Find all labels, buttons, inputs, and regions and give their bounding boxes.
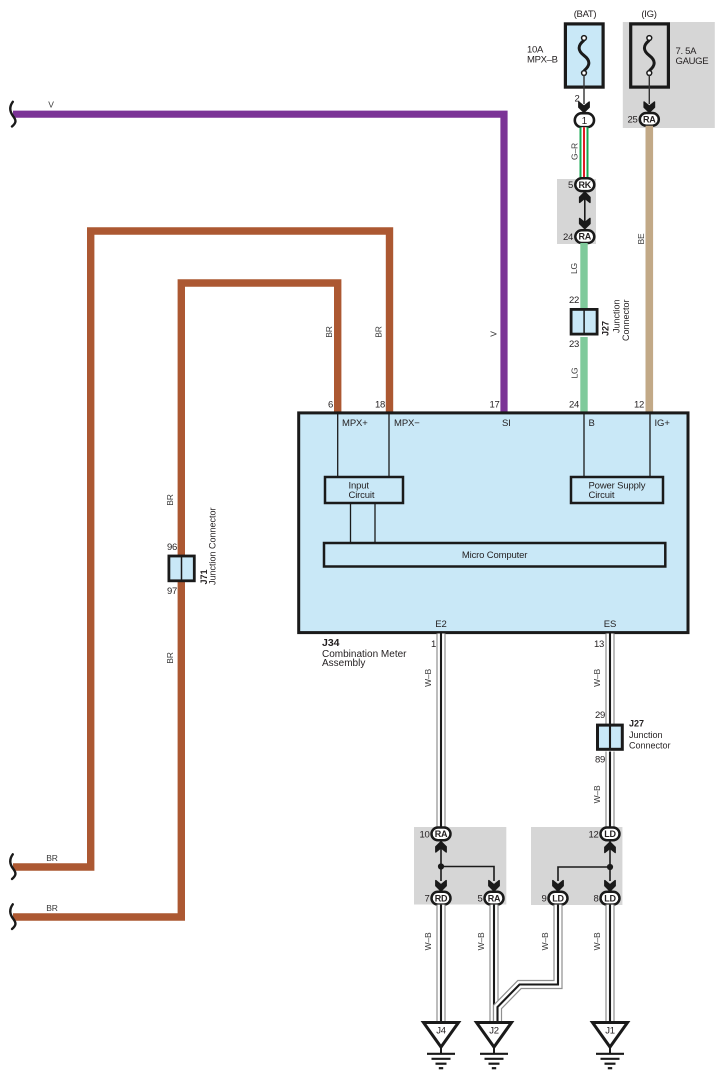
input circuit box xyxy=(325,477,403,503)
svg-text:Micro Computer: Micro Computer xyxy=(462,550,527,561)
svg-text:(BAT): (BAT) xyxy=(574,9,597,20)
svg-text:12: 12 xyxy=(634,400,644,411)
svg-text:LD: LD xyxy=(604,829,616,839)
svg-text:GAUGE: GAUGE xyxy=(676,56,709,67)
wire LG upper xyxy=(580,243,587,308)
svg-text:BR: BR xyxy=(46,903,57,913)
wire G-R xyxy=(580,127,589,179)
node BR outer continuation squiggle xyxy=(10,854,15,879)
gray relay panel left xyxy=(414,827,506,905)
svg-text:BR: BR xyxy=(324,326,334,337)
wire BR inner xyxy=(13,283,338,917)
gray panel RK/RA xyxy=(557,179,596,244)
svg-text:LG: LG xyxy=(569,263,579,274)
svg-text:SI: SI xyxy=(502,418,511,429)
wire BR outer xyxy=(13,231,390,867)
svg-text:RK: RK xyxy=(578,180,591,190)
node 5b RA oval xyxy=(485,892,504,905)
svg-text:25: 25 xyxy=(628,115,638,126)
wire V purple xyxy=(13,114,504,413)
wire fuse IG to 25 RA xyxy=(648,75,650,104)
node 9 LD oval xyxy=(549,892,568,905)
svg-text:8: 8 xyxy=(594,894,599,905)
wire W-B E2 xyxy=(436,634,445,829)
svg-text:J2: J2 xyxy=(489,1026,498,1037)
svg-text:E2: E2 xyxy=(435,619,446,630)
power supply circuit box xyxy=(571,477,663,503)
ground J1 xyxy=(593,1023,628,1069)
wire W-B 8LD to J1 xyxy=(605,905,614,1022)
node V continuation squiggle xyxy=(10,102,15,127)
svg-text:LD: LD xyxy=(552,893,564,903)
fuse MPX-B (BAT) xyxy=(565,24,603,87)
svg-text:W–B: W–B xyxy=(476,932,486,950)
wire input to micro 1 xyxy=(350,503,352,543)
svg-text:Connector: Connector xyxy=(629,741,671,751)
ground J2 xyxy=(477,1023,512,1069)
svg-text:7: 7 xyxy=(425,894,430,905)
wire pin6 internal xyxy=(337,414,339,477)
svg-text:(IG): (IG) xyxy=(641,9,656,20)
arrow into 5 RA xyxy=(489,881,499,891)
svg-text:BE: BE xyxy=(636,233,646,244)
svg-text:BR: BR xyxy=(165,494,175,505)
svg-text:IG+: IG+ xyxy=(655,418,671,429)
svg-text:RA: RA xyxy=(435,829,448,839)
svg-text:18: 18 xyxy=(375,400,385,411)
svg-text:Junction: Junction xyxy=(612,299,622,333)
svg-text:BR: BR xyxy=(46,853,57,863)
double arrow RK to RA xyxy=(580,192,590,229)
svg-text:G–R: G–R xyxy=(570,143,580,160)
arrow into node 1 xyxy=(579,102,589,112)
svg-text:BR: BR xyxy=(165,652,175,663)
node 8 LD oval xyxy=(601,892,620,905)
wire W-B 9LD bend to J2 xyxy=(498,905,559,1022)
svg-text:J27: J27 xyxy=(629,719,644,729)
arrow into 25 RA xyxy=(644,102,654,112)
svg-text:Junction: Junction xyxy=(629,730,663,740)
svg-text:Assembly: Assembly xyxy=(322,658,365,669)
svg-text:97: 97 xyxy=(167,586,177,597)
wire junction branch right xyxy=(441,867,494,882)
svg-text:22: 22 xyxy=(569,295,579,306)
svg-text:1: 1 xyxy=(582,116,588,127)
svg-text:LG: LG xyxy=(570,368,580,379)
ground J4 xyxy=(424,1023,459,1069)
svg-text:W–B: W–B xyxy=(592,669,602,687)
svg-text:24: 24 xyxy=(563,232,573,243)
node 5 RK oval xyxy=(575,178,594,191)
wire W-B 7RD to J4 xyxy=(436,905,445,1022)
node 12 LD oval xyxy=(601,828,620,841)
wire BE xyxy=(645,126,653,413)
node 7 RD oval xyxy=(432,892,451,905)
svg-text:Circuit: Circuit xyxy=(589,490,615,501)
svg-text:LD: LD xyxy=(604,893,616,903)
fuse GAUGE (IG) xyxy=(631,24,669,87)
junction connector J27 top xyxy=(571,309,597,334)
svg-text:MPX+: MPX+ xyxy=(342,418,368,429)
svg-text:RA: RA xyxy=(488,893,501,903)
arrow into 8 LD xyxy=(605,881,615,891)
svg-text:J27: J27 xyxy=(601,321,611,336)
svg-text:W–B: W–B xyxy=(423,932,433,950)
svg-text:96: 96 xyxy=(167,542,177,553)
svg-text:RA: RA xyxy=(578,232,591,242)
svg-text:ES: ES xyxy=(604,619,616,630)
svg-text:BR: BR xyxy=(374,326,384,337)
svg-text:J34: J34 xyxy=(322,637,340,649)
arrow into 7 RD xyxy=(436,881,446,891)
svg-text:23: 23 xyxy=(569,339,579,350)
junction dot right xyxy=(607,864,613,870)
svg-text:24: 24 xyxy=(569,400,579,411)
svg-text:Circuit: Circuit xyxy=(349,490,375,501)
svg-text:Junction Connector: Junction Connector xyxy=(208,507,218,585)
combination meter assembly J34 box xyxy=(299,413,688,633)
svg-text:RD: RD xyxy=(435,893,448,903)
junction connector J27 bottom xyxy=(598,725,623,749)
svg-text:J1: J1 xyxy=(605,1026,614,1037)
wire pin IG+ internal xyxy=(649,414,651,477)
svg-text:MPX−: MPX− xyxy=(394,418,420,429)
svg-text:29: 29 xyxy=(595,710,605,721)
svg-text:9: 9 xyxy=(542,894,547,905)
arrow up into 12 LD xyxy=(605,842,615,852)
wire junction down xyxy=(440,867,442,882)
wire W-B ES lower xyxy=(605,752,614,829)
arrow into 9 LD xyxy=(553,881,563,891)
gray panel IG xyxy=(623,22,715,128)
wire junction branch left xyxy=(558,867,610,881)
arrow up into 10 RA xyxy=(436,842,446,852)
wire pin B internal xyxy=(583,414,585,477)
junction dot left xyxy=(438,863,444,869)
svg-text:1: 1 xyxy=(431,639,436,650)
wire pin18 internal xyxy=(388,414,390,477)
wire 10RA to junction xyxy=(440,841,442,867)
svg-text:5: 5 xyxy=(478,894,483,905)
node 1 oval xyxy=(575,113,594,127)
svg-text:W–B: W–B xyxy=(592,932,602,950)
wire junction down right xyxy=(609,867,611,881)
wire LG lower xyxy=(580,337,587,413)
wire fuse BAT to node 1 xyxy=(583,75,585,104)
micro computer box xyxy=(324,543,665,567)
svg-text:W–B: W–B xyxy=(423,669,433,687)
wire 12LD to junction xyxy=(609,841,611,867)
svg-text:V: V xyxy=(48,100,54,110)
svg-text:RA: RA xyxy=(643,115,656,125)
gray relay panel right xyxy=(531,827,622,905)
node 25 RA oval xyxy=(640,113,659,126)
svg-text:J4: J4 xyxy=(436,1026,445,1037)
wire W-B ES upper xyxy=(605,634,614,725)
svg-text:5: 5 xyxy=(568,180,573,191)
svg-text:12: 12 xyxy=(589,829,599,840)
node BR inner continuation squiggle xyxy=(10,904,15,929)
svg-text:W–B: W–B xyxy=(592,785,602,803)
svg-text:17: 17 xyxy=(490,400,500,411)
svg-text:89: 89 xyxy=(595,755,605,766)
wire W-B 5RA to J2 xyxy=(489,905,498,1022)
svg-text:V: V xyxy=(489,331,499,337)
svg-text:W–B: W–B xyxy=(540,932,550,950)
svg-text:13: 13 xyxy=(594,639,604,650)
svg-text:6: 6 xyxy=(328,400,333,411)
node 24 RA oval xyxy=(575,230,594,243)
junction connector J71 xyxy=(169,556,194,581)
node 10 RA oval xyxy=(432,828,451,841)
svg-text:B: B xyxy=(589,418,595,429)
svg-text:MPX–B: MPX–B xyxy=(527,55,558,66)
svg-text:Connector: Connector xyxy=(621,299,631,341)
wire input to micro 2 xyxy=(374,503,376,543)
svg-text:10: 10 xyxy=(420,829,430,840)
